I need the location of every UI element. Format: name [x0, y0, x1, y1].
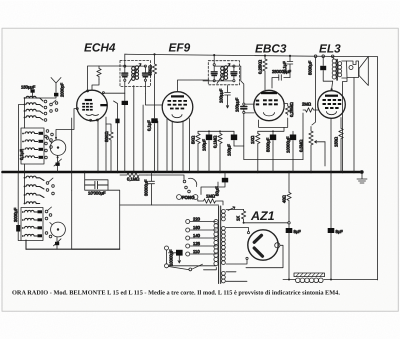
svg-text:ORA RADIO - Mod. BELMONTE L 15: ORA RADIO - Mod. BELMONTE L 15 ed L 115 …	[12, 290, 340, 297]
svg-text:160: 160	[193, 225, 201, 230]
coil L2	[26, 103, 43, 107]
svg-text:125: 125	[193, 241, 201, 246]
svg-text:1K: 1K	[236, 216, 241, 221]
coil IFT1 coupled pair	[132, 66, 139, 81]
svg-text:1MΩ: 1MΩ	[206, 194, 215, 199]
switch S1c contacts	[45, 135, 48, 138]
resistor 0.1M	[218, 131, 222, 172]
tube EF9 envelope	[162, 92, 193, 123]
box aerial coil assembly	[21, 128, 44, 164]
capacitor 8uF first	[288, 224, 290, 228]
wire osc grid	[92, 80, 99, 91]
coil L10	[26, 185, 44, 189]
wire gang frame vertical	[71, 118, 73, 190]
wire AVC to pot	[302, 113, 304, 160]
svg-text:ECH4: ECH4	[84, 41, 116, 55]
tube ECH4 pin circles	[87, 90, 89, 92]
node bus junctions	[84, 171, 356, 173]
resistor 0.25M grid	[284, 104, 290, 115]
arrow potentiometer wiper	[315, 141, 326, 143]
svg-text:EL3: EL3	[319, 42, 341, 56]
resistor black cathode	[115, 119, 119, 124]
choke field coil winding	[296, 278, 324, 283]
node junction IFT2	[213, 54, 215, 56]
svg-text:30000μF: 30000μF	[144, 179, 149, 196]
wire AZ1 cathode out	[246, 245, 283, 267]
capacitor 0.1uF screen	[154, 77, 156, 172]
variable capacitor CV1 tuning	[50, 140, 66, 156]
node cluster	[272, 130, 274, 132]
coil L9 oscillator	[26, 176, 44, 180]
wire IFT1 inner rail	[125, 54, 146, 66]
wire EF9 grid left	[143, 94, 162, 173]
node osc box terminals	[22, 211, 24, 213]
fuse terminal	[165, 246, 169, 250]
antenna series trimmer cap	[54, 93, 58, 97]
box oscillator frame	[72, 190, 120, 249]
wire AZ1 filament	[226, 209, 244, 211]
capacitor 100pF AVC	[225, 86, 231, 109]
switch S1 wave-band contacts	[44, 100, 47, 103]
svg-text:5000μF: 5000μF	[308, 60, 313, 75]
node junction 0.1uF top	[289, 55, 291, 57]
wire AVC line	[234, 146, 303, 160]
speaker magnet	[347, 61, 359, 78]
switch mains	[169, 264, 217, 270]
svg-text:100μF: 100μF	[202, 139, 207, 151]
svg-text:EBC3: EBC3	[255, 42, 287, 56]
coil L7	[25, 148, 38, 150]
capacitor black grid EL3	[323, 58, 333, 82]
wire T1 tap stubs	[169, 222, 216, 266]
core bar padder	[16, 225, 20, 232]
wire T2 secondary return down	[343, 78, 348, 172]
capacitor 10000pF padder loop	[85, 172, 108, 190]
transformer IFT1 shield box	[120, 61, 150, 87]
wire left rail osc	[18, 172, 21, 241]
coil L5	[25, 132, 38, 134]
resistor 150 cathode EL3	[339, 118, 343, 173]
node filter junction	[288, 222, 290, 224]
svg-text:5000μF: 5000μF	[266, 137, 271, 152]
tube EL3 envelope	[318, 91, 346, 119]
svg-text:10’000μF: 10’000μF	[88, 191, 106, 196]
capacitor 100uF electrolytic	[208, 131, 210, 172]
svg-text:50KΩ: 50KΩ	[104, 131, 109, 142]
coil IFT2 coupled pair	[221, 66, 228, 81]
transformer T1 primary winding	[214, 220, 218, 266]
wire tone line	[312, 58, 316, 126]
box oscillator coil assembly	[21, 208, 43, 241]
arrow IFT2 tuning	[217, 64, 230, 84]
capacitor 30000pF	[149, 172, 155, 205]
svg-text:FONO: FONO	[182, 195, 195, 200]
coil L15	[25, 226, 38, 228]
capacitor IFT2 primary trim	[213, 64, 215, 66]
resistor 5K	[196, 131, 200, 172]
transformer IFT2 shield box	[208, 61, 239, 85]
terminal mains taps	[186, 220, 190, 224]
variable capacitor CV2 tuning	[51, 222, 66, 237]
svg-text:25000μμF: 25000μμF	[272, 69, 291, 74]
svg-text:0,1MΩ: 0,1MΩ	[213, 136, 218, 148]
resistor 1M hum	[198, 199, 223, 205]
wire EL3 cathode long vertical	[330, 118, 332, 279]
pickup arc	[189, 178, 197, 186]
arrow filament winding	[228, 207, 235, 211]
wire fono arm	[147, 175, 184, 180]
wire pin vertical	[114, 101, 118, 172]
wire ECH4 plate to IFT1	[103, 92, 125, 94]
coil L8	[25, 156, 38, 158]
svg-text:100μF: 100μF	[227, 144, 232, 156]
node coil box terminals	[22, 133, 24, 135]
resistor 40ohm field	[287, 172, 291, 222]
svg-text:1KΩ: 1KΩ	[250, 136, 255, 144]
node choke junctions	[288, 279, 290, 281]
svg-text:10000μF: 10000μF	[286, 136, 291, 153]
switch S1b contacts	[46, 130, 49, 133]
svg-text:2MΩ: 2MΩ	[302, 102, 311, 107]
wire T2 secondary to speaker	[342, 61, 347, 78]
wire plate to tube	[332, 81, 333, 88]
switch S2 contacts	[46, 182, 49, 185]
wire EF9 top to IFT2	[178, 80, 210, 92]
resistor 1K cathode	[256, 131, 260, 172]
ground arrow filter	[178, 256, 181, 263]
wire EF9 pins to bus	[167, 119, 190, 173]
core T2	[336, 60, 338, 81]
tube ECH4 envelope	[77, 90, 108, 121]
capacitor diode detector	[243, 103, 245, 105]
choke field coil core	[294, 273, 325, 277]
svg-text:5KΩ: 5KΩ	[191, 136, 196, 144]
svg-text:110: 110	[193, 249, 200, 254]
wire screen bypass return	[157, 121, 159, 172]
node junction EBC3 plate feed	[264, 55, 266, 57]
wire AF cluster rail	[198, 130, 234, 132]
wire left rail to bus	[19, 105, 25, 173]
transformer T2 output primary	[333, 58, 334, 59]
svg-text:0,25KΩ: 0,25KΩ	[258, 60, 263, 74]
svg-text:EF9: EF9	[169, 41, 191, 55]
svg-text:8μF: 8μF	[336, 229, 344, 234]
coil L13	[25, 210, 38, 212]
capacitor 10000pF	[292, 131, 294, 172]
chassis thick bus	[3, 171, 363, 174]
tube EBC3 electrodes	[256, 92, 278, 106]
svg-text:AZ1: AZ1	[250, 209, 275, 223]
svg-text:0,25MΩ: 0,25MΩ	[289, 102, 294, 117]
tube AZ1 filament pin	[275, 243, 280, 248]
speaker cone	[359, 57, 368, 86]
resistor 2M grid EL3	[303, 108, 318, 112]
coil L14	[25, 218, 38, 220]
node junction IFT1 resistor	[153, 53, 155, 55]
coil L11	[26, 193, 44, 197]
jack FONO	[177, 195, 182, 200]
resistor 1K surge	[241, 210, 245, 223]
svg-text:150Ω: 150Ω	[334, 137, 339, 147]
wire ECH4 pins to bus	[98, 117, 106, 172]
capacitor 50uF electrolytic	[201, 172, 225, 195]
svg-text:40Ω: 40Ω	[282, 195, 287, 203]
svg-text:140: 140	[193, 233, 201, 238]
potentiometer 0.5M volume	[309, 127, 313, 173]
tube ECH4 electrodes	[82, 99, 107, 111]
capacitor 5000pF	[272, 131, 274, 172]
trimmer 150pF	[31, 89, 35, 92]
tube EBC3 envelope	[254, 90, 284, 120]
coil L3	[26, 109, 43, 113]
wire bus to IFT2	[214, 55, 234, 66]
node coil bank left rail	[24, 98, 26, 128]
capacitor IFT1 secondary trim	[144, 65, 146, 67]
svg-text:100μμF: 100μμF	[235, 97, 240, 112]
ground symbol at bus end	[360, 171, 363, 174]
capacitor IFT1 primary trim	[124, 65, 126, 67]
transformer T2 secondary	[338, 62, 342, 77]
wire diode load	[259, 118, 288, 127]
wire ECH4 cathode elbow to tuning gang	[56, 109, 77, 140]
transformer T1 core	[219, 206, 221, 284]
resistor 50K zigzag	[106, 124, 113, 172]
wire ECH4 grid top	[88, 66, 125, 91]
coil L16	[25, 234, 38, 236]
node cluster junctions	[208, 130, 210, 132]
wire EBC3 cluster rail	[258, 127, 284, 131]
resistor 45K screen feed	[152, 54, 156, 77]
capacitor 100uF second	[233, 131, 235, 146]
svg-text:8μF: 8μF	[294, 229, 302, 234]
resistor 1K osc grid	[97, 66, 101, 80]
svg-text:10000μF: 10000μF	[169, 249, 174, 266]
coil L6	[25, 140, 38, 142]
capacitor 0.1uF top	[287, 56, 293, 77]
tube AZ1 envelope	[248, 230, 278, 260]
wire osc bottom rail	[26, 248, 120, 250]
svg-text:2000pF: 2000pF	[60, 82, 65, 97]
trimmer CT1	[56, 163, 60, 166]
svg-text:0,1μF: 0,1μF	[19, 149, 24, 160]
transformer T1 rectifier filament winding	[222, 210, 226, 221]
capacitor line filter	[169, 252, 177, 254]
wire IFT2 to diode	[235, 66, 244, 103]
resistor 0.25M plate load EBC3	[263, 56, 267, 90]
coil L4	[26, 116, 43, 120]
capacitor 8uF second	[328, 228, 335, 233]
switch S2b contacts	[45, 210, 48, 213]
svg-text:3000μF: 3000μF	[13, 207, 18, 222]
transformer T1 heater winding	[222, 272, 226, 283]
arrow IFT1 tuning	[129, 64, 142, 84]
wire speaker frame down	[353, 78, 355, 173]
wire frame to transformer	[120, 204, 219, 206]
svg-text:0,1μF: 0,1μF	[147, 120, 152, 131]
wire IFT2 bottom rail	[203, 80, 233, 82]
antenna	[51, 78, 61, 93]
wire choke leads	[283, 279, 378, 281]
tube EL3 electrodes	[323, 95, 342, 109]
coil L12	[26, 202, 40, 204]
capacitor IFT2 secondary trim	[233, 65, 235, 67]
svg-text:50μF: 50μF	[215, 186, 220, 196]
wire top HT bus	[125, 54, 378, 280]
svg-text:100μμF: 100μμF	[219, 88, 224, 103]
transformer T1 HV winding	[222, 227, 226, 265]
wire HV to plates	[226, 228, 249, 265]
coupling cap black osc	[122, 101, 128, 105]
wire IFT1 secondary down	[133, 86, 135, 173]
trimmer CT2	[55, 242, 59, 245]
capacitor 25000pF coupling	[272, 75, 290, 88]
svg-text:0,1MΩ: 0,1MΩ	[127, 177, 139, 182]
svg-text:220: 220	[193, 217, 201, 222]
node osc rail	[24, 172, 26, 204]
wire filament line	[244, 222, 288, 224]
tube AZ1 anode plates	[254, 235, 261, 242]
resistor 0.1M fono	[120, 173, 147, 177]
svg-text:45KΩ: 45KΩ	[148, 65, 153, 76]
coil L1 antenna	[26, 96, 43, 101]
wire IFT1 return vertical	[124, 81, 126, 172]
svg-text:150μμF: 150μμF	[21, 85, 36, 90]
wire heater stubs	[226, 272, 247, 282]
tube EF9 electrodes	[168, 95, 188, 109]
terminal circles on bus	[314, 55, 317, 58]
